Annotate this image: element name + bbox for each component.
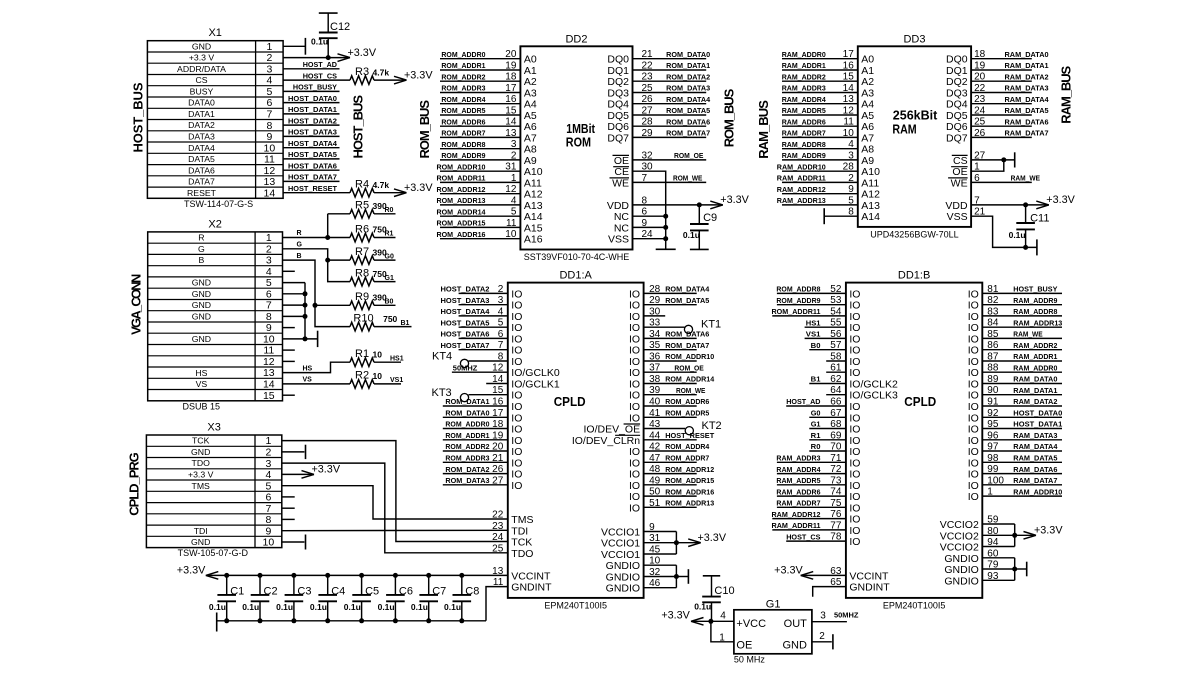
svg-text:0.1u: 0.1u xyxy=(694,602,711,612)
svg-text:VCCIO1: VCCIO1 xyxy=(601,549,640,561)
svg-text:ROM_DATA5: ROM_DATA5 xyxy=(666,106,710,115)
svg-text:RAM_ADDR6: RAM_ADDR6 xyxy=(776,487,820,496)
svg-text:ROM_ADDR13: ROM_ADDR13 xyxy=(665,499,714,508)
svg-text:RAM_ADDR8: RAM_ADDR8 xyxy=(782,140,826,149)
svg-text:VCCINT: VCCINT xyxy=(511,570,551,582)
svg-text:1: 1 xyxy=(719,633,725,644)
svg-text:26: 26 xyxy=(974,128,986,139)
svg-text:DATA3: DATA3 xyxy=(188,132,215,142)
svg-text:3: 3 xyxy=(266,63,272,75)
svg-text:A12: A12 xyxy=(861,189,880,201)
svg-text:ROM_DATA7: ROM_DATA7 xyxy=(665,341,709,350)
svg-text:IO: IO xyxy=(511,446,522,458)
svg-text:18: 18 xyxy=(974,49,986,60)
svg-text:23: 23 xyxy=(642,72,654,83)
svg-text:ROM_ADDR1: ROM_ADDR1 xyxy=(445,431,489,440)
svg-text:3: 3 xyxy=(266,255,272,267)
svg-text:IO: IO xyxy=(511,356,522,368)
svg-text:50MHZ: 50MHZ xyxy=(453,364,478,373)
svg-text:TDI: TDI xyxy=(194,526,208,536)
svg-text:CPLD_PRG: CPLD_PRG xyxy=(127,452,142,516)
svg-text:HOST_AD: HOST_AD xyxy=(303,60,338,69)
svg-text:29: 29 xyxy=(642,128,654,139)
svg-text:VDD: VDD xyxy=(945,200,968,212)
svg-text:IO: IO xyxy=(629,502,640,514)
svg-text:IO: IO xyxy=(629,469,640,481)
svg-text:DQ4: DQ4 xyxy=(607,99,629,111)
svg-text:EPM240T100I5: EPM240T100I5 xyxy=(883,600,946,610)
svg-text:RAM_ADDR3: RAM_ADDR3 xyxy=(782,84,826,93)
svg-text:25: 25 xyxy=(642,83,654,94)
svg-text:20: 20 xyxy=(505,49,517,60)
svg-text:HOST_DATA1: HOST_DATA1 xyxy=(1013,420,1062,429)
svg-text:IO: IO xyxy=(511,300,522,312)
svg-text:RAM_DATA6: RAM_DATA6 xyxy=(1005,117,1049,126)
svg-text:IO: IO xyxy=(849,491,860,503)
svg-text:R8: R8 xyxy=(355,267,369,279)
svg-text:TDI: TDI xyxy=(511,525,528,537)
svg-text:9: 9 xyxy=(266,322,272,334)
svg-text:10: 10 xyxy=(263,537,275,549)
svg-text:HOST_DATA4: HOST_DATA4 xyxy=(288,139,338,148)
svg-text:DQ3: DQ3 xyxy=(946,88,968,100)
svg-text:OE: OE xyxy=(614,155,629,167)
svg-text:GND: GND xyxy=(192,289,211,299)
svg-text:RAM_DATA6: RAM_DATA6 xyxy=(1013,465,1057,474)
svg-text:+3.3 V: +3.3 V xyxy=(188,470,214,480)
svg-text:R6: R6 xyxy=(355,223,369,235)
svg-text:DATA1: DATA1 xyxy=(188,109,215,119)
svg-text:RAM_BUS: RAM_BUS xyxy=(1059,65,1074,123)
svg-text:IO: IO xyxy=(968,311,979,323)
svg-text:A10: A10 xyxy=(524,166,543,178)
svg-text:ROM_ADDR14: ROM_ADDR14 xyxy=(437,207,487,216)
svg-text:C5: C5 xyxy=(365,585,379,597)
svg-text:IO: IO xyxy=(849,469,860,481)
svg-text:IO: IO xyxy=(849,322,860,334)
svg-text:IO: IO xyxy=(511,469,522,481)
svg-text:RAM_ADDR11: RAM_ADDR11 xyxy=(772,521,821,530)
svg-text:IO: IO xyxy=(968,390,979,402)
svg-text:RAM_ADDR12: RAM_ADDR12 xyxy=(772,510,821,519)
svg-text:5: 5 xyxy=(266,86,272,98)
svg-text:R0: R0 xyxy=(811,442,821,451)
svg-text:DATA0: DATA0 xyxy=(188,98,215,108)
svg-text:IO: IO xyxy=(629,412,640,424)
svg-text:IO: IO xyxy=(968,412,979,424)
svg-text:A10: A10 xyxy=(861,166,880,178)
svg-text:B0: B0 xyxy=(385,299,394,306)
svg-text:GNDIO: GNDIO xyxy=(606,572,640,584)
svg-text:UPD43256BGW-70LL: UPD43256BGW-70LL xyxy=(870,229,958,239)
svg-text:7: 7 xyxy=(266,109,272,121)
svg-text:IO/DEV_OE: IO/DEV_OE xyxy=(583,424,640,436)
svg-text:A6: A6 xyxy=(524,121,537,133)
svg-text:DQ2: DQ2 xyxy=(607,76,629,88)
svg-text:RAM_DATA2: RAM_DATA2 xyxy=(1013,397,1057,406)
svg-text:IO: IO xyxy=(629,322,640,334)
svg-text:11: 11 xyxy=(263,345,274,357)
svg-text:IO: IO xyxy=(629,333,640,345)
svg-text:IO: IO xyxy=(511,390,522,402)
svg-text:IO: IO xyxy=(849,480,860,492)
svg-text:RAM_ADDR2: RAM_ADDR2 xyxy=(782,72,826,81)
svg-text:OE: OE xyxy=(952,166,967,178)
svg-text:GND: GND xyxy=(191,537,210,547)
svg-text:IO: IO xyxy=(629,390,640,402)
svg-text:RAM_ADDR0: RAM_ADDR0 xyxy=(1013,363,1057,372)
svg-text:ROM_ADDR16: ROM_ADDR16 xyxy=(665,487,714,496)
svg-text:GND: GND xyxy=(191,447,210,457)
svg-text:IO: IO xyxy=(968,469,979,481)
svg-text:IO: IO xyxy=(629,311,640,323)
svg-text:HOST_DATA4: HOST_DATA4 xyxy=(441,307,491,316)
svg-text:ROM_DATA3: ROM_DATA3 xyxy=(445,476,489,485)
svg-text:OUT: OUT xyxy=(784,618,808,630)
svg-text:HS1: HS1 xyxy=(390,355,404,362)
svg-text:ROM_DATA3: ROM_DATA3 xyxy=(666,84,710,93)
svg-text:A2: A2 xyxy=(861,76,874,88)
svg-text:HOST_BUS: HOST_BUS xyxy=(131,82,146,152)
svg-text:GNDIO: GNDIO xyxy=(606,560,640,572)
svg-text:4: 4 xyxy=(720,610,726,621)
svg-text:50MHZ: 50MHZ xyxy=(834,611,859,620)
svg-text:ROM_ADDR4: ROM_ADDR4 xyxy=(441,95,486,104)
svg-text:NC: NC xyxy=(614,222,630,234)
svg-text:HOST_BUSY: HOST_BUSY xyxy=(293,83,337,92)
svg-text:RAM_DATA0: RAM_DATA0 xyxy=(1013,375,1057,384)
svg-text:HS1: HS1 xyxy=(806,318,821,327)
svg-text:A1: A1 xyxy=(524,65,537,77)
svg-text:ROM: ROM xyxy=(566,135,591,149)
svg-text:4: 4 xyxy=(266,75,272,87)
svg-text:IO: IO xyxy=(968,491,979,503)
svg-text:12: 12 xyxy=(263,356,275,368)
svg-text:R: R xyxy=(198,233,204,243)
svg-text:A8: A8 xyxy=(861,144,874,156)
svg-text:C2: C2 xyxy=(264,585,278,597)
svg-text:RAM_ADDR9: RAM_ADDR9 xyxy=(1013,296,1057,305)
svg-text:VDD: VDD xyxy=(607,200,630,212)
svg-text:ROM_DATA4: ROM_DATA4 xyxy=(665,285,710,294)
svg-text:ROM_ADDR14: ROM_ADDR14 xyxy=(665,375,715,384)
svg-text:12: 12 xyxy=(264,165,276,177)
svg-text:HOST_DATA0: HOST_DATA0 xyxy=(288,94,337,103)
svg-text:2: 2 xyxy=(266,243,272,255)
svg-text:HOST_BUS: HOST_BUS xyxy=(351,95,366,159)
svg-text:RAM_DATA3: RAM_DATA3 xyxy=(1013,431,1057,440)
svg-text:+3.3V: +3.3V xyxy=(698,532,727,544)
svg-text:10: 10 xyxy=(373,349,383,359)
svg-text:R10: R10 xyxy=(353,312,373,324)
svg-text:IO: IO xyxy=(849,536,860,548)
svg-text:OE: OE xyxy=(736,640,752,652)
svg-text:VCCIO2: VCCIO2 xyxy=(940,530,979,542)
svg-text:G1: G1 xyxy=(766,598,781,610)
svg-text:+3.3V: +3.3V xyxy=(1046,194,1075,206)
svg-text:CPLD: CPLD xyxy=(904,394,936,409)
svg-text:IO: IO xyxy=(849,502,860,514)
svg-text:B0: B0 xyxy=(811,341,821,350)
svg-text:14: 14 xyxy=(263,379,275,391)
svg-text:RAM_DATA7: RAM_DATA7 xyxy=(1013,476,1057,485)
svg-text:RAM_DATA7: RAM_DATA7 xyxy=(1005,129,1049,138)
svg-text:RAM_ADDR7: RAM_ADDR7 xyxy=(782,129,826,138)
svg-text:IO: IO xyxy=(968,379,979,391)
svg-text:ROM_ADDR11: ROM_ADDR11 xyxy=(772,307,821,316)
svg-text:A11: A11 xyxy=(524,177,542,189)
svg-text:DATA6: DATA6 xyxy=(188,165,215,175)
svg-text:ROM_DATA0: ROM_DATA0 xyxy=(666,50,710,59)
svg-text:22: 22 xyxy=(974,83,986,94)
svg-text:A5: A5 xyxy=(861,110,874,122)
svg-text:26: 26 xyxy=(642,94,654,105)
svg-text:15: 15 xyxy=(505,106,517,117)
svg-text:NC: NC xyxy=(614,211,630,223)
svg-text:10: 10 xyxy=(264,142,276,154)
svg-text:3: 3 xyxy=(820,611,826,622)
svg-text:ROM_ADDR8: ROM_ADDR8 xyxy=(776,285,820,294)
svg-text:5: 5 xyxy=(266,277,272,289)
svg-text:DQ7: DQ7 xyxy=(946,132,968,144)
svg-text:2: 2 xyxy=(265,447,271,459)
svg-text:RAM_ADDR9: RAM_ADDR9 xyxy=(782,151,826,160)
svg-text:ROM_ADDR7: ROM_ADDR7 xyxy=(665,454,709,463)
svg-text:A9: A9 xyxy=(861,155,874,167)
svg-text:DD2: DD2 xyxy=(565,33,587,45)
svg-text:G: G xyxy=(198,244,205,254)
svg-text:DSUB 15: DSUB 15 xyxy=(183,401,221,411)
svg-text:HOST_RESET: HOST_RESET xyxy=(288,184,337,193)
svg-text:0.1u: 0.1u xyxy=(683,230,700,240)
svg-text:ROM_DATA7: ROM_DATA7 xyxy=(666,129,710,138)
svg-text:DATA5: DATA5 xyxy=(188,154,215,164)
svg-text:GND: GND xyxy=(192,41,211,51)
svg-text:+VCC: +VCC xyxy=(736,618,766,630)
svg-text:RAM_ADDR4: RAM_ADDR4 xyxy=(782,95,827,104)
svg-text:20: 20 xyxy=(974,72,986,83)
svg-text:DQ6: DQ6 xyxy=(946,121,968,133)
svg-text:B: B xyxy=(199,255,205,265)
svg-text:IO: IO xyxy=(968,333,979,345)
svg-text:IO: IO xyxy=(968,446,979,458)
svg-text:ROM_DATA6: ROM_DATA6 xyxy=(665,330,709,339)
svg-text:256kBit: 256kBit xyxy=(893,109,938,123)
svg-text:G1: G1 xyxy=(811,420,821,429)
svg-text:ROM_ADDR11: ROM_ADDR11 xyxy=(437,174,486,183)
svg-text:24: 24 xyxy=(492,532,504,543)
svg-text:25: 25 xyxy=(974,117,986,128)
svg-text:IO: IO xyxy=(511,401,522,413)
svg-text:DQ7: DQ7 xyxy=(607,132,629,144)
svg-text:IO: IO xyxy=(511,311,522,323)
svg-text:IO: IO xyxy=(629,288,640,300)
svg-text:TMS: TMS xyxy=(192,481,211,491)
svg-text:13: 13 xyxy=(264,176,276,188)
svg-text:A6: A6 xyxy=(861,121,874,133)
svg-text:C11: C11 xyxy=(1030,213,1049,225)
svg-text:DQ1: DQ1 xyxy=(607,65,629,77)
svg-text:C1: C1 xyxy=(230,585,244,597)
svg-text:GNDIO: GNDIO xyxy=(944,575,978,587)
svg-text:ROM_ADDR4: ROM_ADDR4 xyxy=(665,442,710,451)
svg-text:G0: G0 xyxy=(811,409,821,418)
svg-text:IO: IO xyxy=(968,356,979,368)
svg-text:VCCIO1: VCCIO1 xyxy=(601,538,640,550)
svg-text:0.1u: 0.1u xyxy=(276,602,293,612)
svg-text:VCCIO2: VCCIO2 xyxy=(940,519,979,531)
svg-text:HS: HS xyxy=(303,365,313,372)
svg-text:IO: IO xyxy=(849,356,860,368)
svg-text:R9: R9 xyxy=(355,291,369,303)
svg-text:HOST_RESET: HOST_RESET xyxy=(665,431,714,440)
svg-text:R0: R0 xyxy=(385,207,394,214)
svg-text:RAM_DATA4: RAM_DATA4 xyxy=(1013,442,1058,451)
svg-text:ROM_ADDR3: ROM_ADDR3 xyxy=(445,454,489,463)
svg-text:C7: C7 xyxy=(432,585,446,597)
svg-text:8: 8 xyxy=(266,311,272,323)
svg-text:IO/DEV_CLRn: IO/DEV_CLRn xyxy=(572,435,640,447)
svg-text:TDO: TDO xyxy=(511,548,533,560)
svg-text:IO: IO xyxy=(968,322,979,334)
svg-text:IO: IO xyxy=(849,424,860,436)
svg-text:DQ2: DQ2 xyxy=(946,76,968,88)
svg-text:GNDINT: GNDINT xyxy=(849,582,890,594)
svg-text:+3.3V: +3.3V xyxy=(348,47,377,59)
svg-text:DATA2: DATA2 xyxy=(188,120,215,130)
svg-text:ROM_ADDR16: ROM_ADDR16 xyxy=(437,230,486,239)
svg-text:DQ0: DQ0 xyxy=(607,54,629,66)
svg-text:GNDIO: GNDIO xyxy=(606,583,640,595)
svg-text:RAM_ADDR6: RAM_ADDR6 xyxy=(782,117,826,126)
svg-text:R1: R1 xyxy=(355,348,369,360)
svg-text:R2: R2 xyxy=(355,370,369,382)
svg-text:2: 2 xyxy=(819,631,825,642)
svg-text:DQ5: DQ5 xyxy=(946,110,968,122)
svg-text:A3: A3 xyxy=(524,88,537,100)
svg-text:R1: R1 xyxy=(811,431,821,440)
svg-text:A11: A11 xyxy=(861,177,879,189)
svg-text:VCCIO1: VCCIO1 xyxy=(601,527,640,539)
svg-text:ROM_ADDR8: ROM_ADDR8 xyxy=(441,140,485,149)
svg-text:HOST_DATA5: HOST_DATA5 xyxy=(441,318,490,327)
svg-text:ROM_ADDR5: ROM_ADDR5 xyxy=(665,409,709,418)
svg-text:RAM_DATA0: RAM_DATA0 xyxy=(1005,50,1049,59)
svg-text:GNDIO: GNDIO xyxy=(944,553,978,565)
svg-text:A13: A13 xyxy=(524,200,543,212)
svg-text:ROM_DATA0: ROM_DATA0 xyxy=(445,409,489,418)
svg-text:IO: IO xyxy=(968,435,979,447)
svg-text:HOST_BUSY: HOST_BUSY xyxy=(1013,285,1057,294)
svg-text:VGA_CONN: VGA_CONN xyxy=(129,274,144,335)
svg-text:7: 7 xyxy=(265,503,271,515)
svg-text:WE: WE xyxy=(612,177,629,189)
svg-text:R7: R7 xyxy=(355,246,369,258)
svg-text:IO: IO xyxy=(511,412,522,424)
svg-text:IO: IO xyxy=(849,333,860,345)
svg-text:6: 6 xyxy=(265,492,271,504)
svg-text:RAM_ADDR13: RAM_ADDR13 xyxy=(777,196,826,205)
svg-text:GNDINT: GNDINT xyxy=(511,582,552,594)
svg-text:HOST_DATA6: HOST_DATA6 xyxy=(288,161,337,170)
svg-text:GND: GND xyxy=(782,640,807,652)
svg-text:0.1u: 0.1u xyxy=(310,602,327,612)
svg-text:ROM_ADDR0: ROM_ADDR0 xyxy=(445,420,489,429)
svg-text:23: 23 xyxy=(974,94,986,105)
svg-text:1: 1 xyxy=(511,173,517,184)
svg-text:IO: IO xyxy=(849,435,860,447)
svg-text:IO/GCLK2: IO/GCLK2 xyxy=(849,379,898,391)
svg-text:IO: IO xyxy=(629,491,640,503)
svg-text:0.1u: 0.1u xyxy=(209,602,226,612)
svg-text:13: 13 xyxy=(492,566,504,577)
svg-text:31: 31 xyxy=(505,162,517,173)
svg-text:R: R xyxy=(297,230,302,237)
svg-text:RAM_ADDR7: RAM_ADDR7 xyxy=(776,499,820,508)
svg-text:4: 4 xyxy=(266,266,272,278)
svg-text:IO: IO xyxy=(968,288,979,300)
svg-text:A14: A14 xyxy=(861,211,880,223)
svg-text:ROM_DATA1: ROM_DATA1 xyxy=(666,61,710,70)
svg-text:HOST_DATA7: HOST_DATA7 xyxy=(441,341,490,350)
svg-text:ROM_ADDR1: ROM_ADDR1 xyxy=(441,61,485,70)
svg-text:4: 4 xyxy=(511,195,517,206)
svg-text:GND: GND xyxy=(192,300,211,310)
svg-text:GNDIO: GNDIO xyxy=(944,564,978,576)
svg-text:DQ6: DQ6 xyxy=(607,121,629,133)
svg-text:4.7k: 4.7k xyxy=(373,180,390,190)
svg-text:A14: A14 xyxy=(524,211,543,223)
svg-text:11: 11 xyxy=(493,577,504,588)
svg-text:4: 4 xyxy=(265,469,271,481)
svg-text:IO: IO xyxy=(629,401,640,413)
svg-text:RAM_ADDR10: RAM_ADDR10 xyxy=(777,162,826,171)
svg-text:14: 14 xyxy=(264,187,276,199)
svg-text:10: 10 xyxy=(263,334,275,346)
svg-text:VSS: VSS xyxy=(608,234,629,246)
svg-text:RAM_DATA2: RAM_DATA2 xyxy=(1005,72,1049,81)
svg-text:R4: R4 xyxy=(355,179,369,191)
svg-text:IO: IO xyxy=(511,435,522,447)
svg-text:11: 11 xyxy=(506,218,517,229)
svg-text:RAM_WE: RAM_WE xyxy=(1013,330,1042,339)
svg-text:C10: C10 xyxy=(714,585,734,597)
svg-text:24: 24 xyxy=(974,106,986,117)
svg-text:HOST_DATA2: HOST_DATA2 xyxy=(441,285,490,294)
svg-text:G0: G0 xyxy=(385,253,394,260)
svg-text:750: 750 xyxy=(383,314,397,324)
svg-text:VCCINT: VCCINT xyxy=(849,570,889,582)
svg-text:X1: X1 xyxy=(208,27,221,39)
svg-text:TMS: TMS xyxy=(511,514,533,526)
svg-text:+3.3V: +3.3V xyxy=(177,565,206,577)
svg-text:IO: IO xyxy=(629,300,640,312)
svg-text:50 MHz: 50 MHz xyxy=(734,655,766,665)
svg-text:ROM_ADDR9: ROM_ADDR9 xyxy=(441,151,485,160)
svg-text:A0: A0 xyxy=(861,54,874,66)
svg-text:DATA7: DATA7 xyxy=(188,177,215,187)
svg-text:IO: IO xyxy=(968,457,979,469)
svg-text:ROM_ADDR9: ROM_ADDR9 xyxy=(776,296,820,305)
svg-text:VSS: VSS xyxy=(947,211,968,223)
svg-text:DATA4: DATA4 xyxy=(188,143,215,153)
svg-text:IO: IO xyxy=(511,322,522,334)
svg-text:RAM_DATA3: RAM_DATA3 xyxy=(1005,84,1049,93)
svg-text:19: 19 xyxy=(974,61,986,72)
svg-text:C6: C6 xyxy=(399,585,413,597)
svg-text:RESET: RESET xyxy=(187,188,217,198)
svg-text:5: 5 xyxy=(511,207,517,218)
